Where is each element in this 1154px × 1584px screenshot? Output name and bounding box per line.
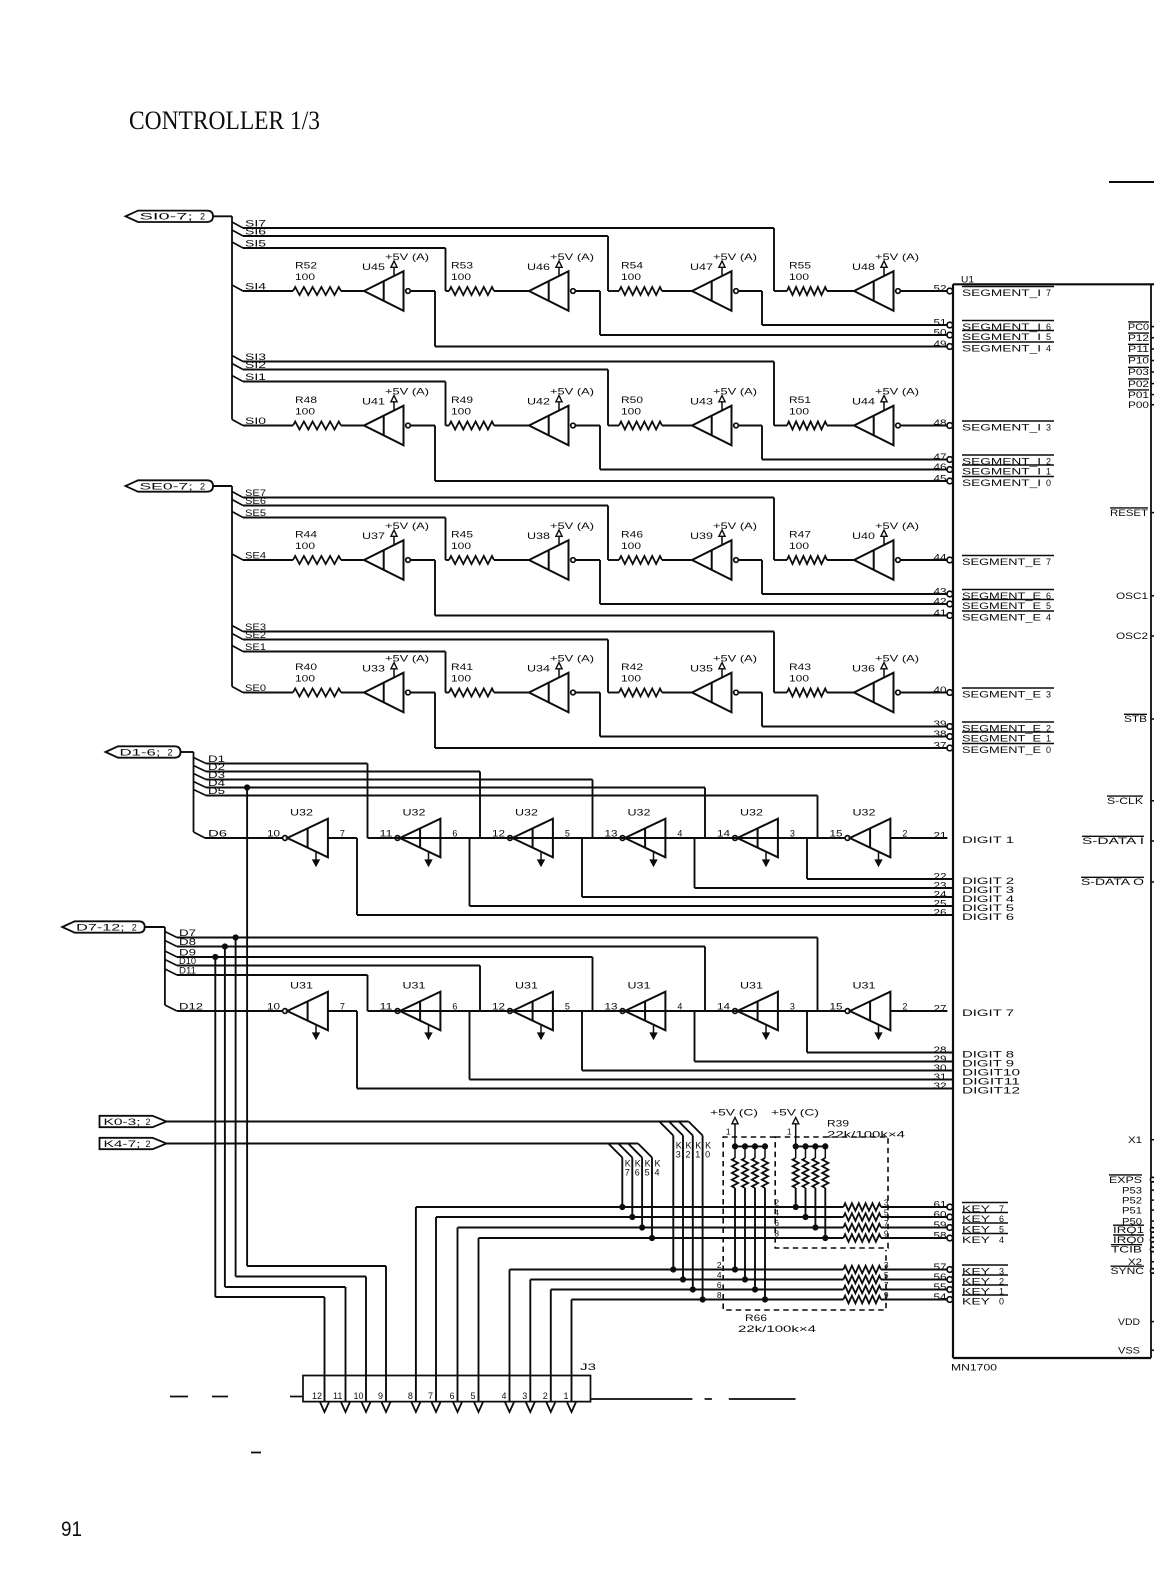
- bus tag D1-6 sheet 2: [106, 746, 181, 757]
- wire U38 output to pin: [575, 560, 947, 604]
- svg-text:3: 3: [1046, 423, 1051, 433]
- svg-text:OSC1: OSC1: [1116, 591, 1148, 601]
- junction on D9: [213, 954, 218, 959]
- svg-text:DIGIT 6: DIGIT 6: [962, 912, 1014, 922]
- svg-text:91: 91: [61, 1518, 82, 1541]
- svg-text:U32: U32: [515, 808, 538, 818]
- svg-text:J3: J3: [580, 1362, 596, 1372]
- svg-text:6: 6: [635, 1168, 640, 1178]
- svg-text:100: 100: [789, 541, 809, 551]
- svg-text:SEGMENT_I: SEGMENT_I: [962, 423, 1041, 433]
- wire R49 to U42: [494, 425, 529, 427]
- svg-text:VSS: VSS: [1118, 1345, 1140, 1355]
- node SI5: [232, 239, 446, 249]
- svg-text:2: 2: [717, 1260, 722, 1270]
- stray dash mark: [251, 1452, 261, 1454]
- svg-text:1: 1: [564, 1391, 569, 1401]
- resistor R40 100: [293, 662, 341, 697]
- power +5V (A) supply of U35: [713, 654, 757, 678]
- node SE2: [232, 630, 608, 640]
- svg-text:EXPS: EXPS: [1109, 1175, 1142, 1185]
- node SE7: [232, 488, 774, 498]
- svg-text:+5V (A): +5V (A): [550, 252, 594, 262]
- svg-text:S-CLK: S-CLK: [1107, 796, 1143, 806]
- svg-text:R52: R52: [295, 261, 317, 271]
- svg-text:R47: R47: [789, 530, 811, 540]
- svg-text:7: 7: [428, 1391, 433, 1401]
- inverter U35: [690, 664, 738, 713]
- svg-text:SYNC: SYNC: [1111, 1266, 1145, 1276]
- node D2: [194, 762, 481, 772]
- svg-text:SE1: SE1: [245, 642, 266, 652]
- wire R55 to U48: [827, 290, 854, 292]
- svg-text:R53: R53: [451, 261, 473, 271]
- wire R47 to U40: [827, 559, 854, 561]
- pin 48 SEGMENT_I 3 of U1: [934, 418, 1055, 433]
- svg-text:39: 39: [934, 719, 947, 729]
- wire D1-6 bus trunk: [194, 752, 206, 838]
- svg-text:+5V (A): +5V (A): [875, 654, 919, 664]
- svg-text:41: 41: [934, 608, 947, 618]
- resistor R66 element 3 pull-up: [752, 1146, 758, 1292]
- wire U33 output to pin: [410, 693, 947, 749]
- svg-text:3: 3: [790, 829, 795, 839]
- pin 44 SEGMENT_E 7 of U1: [934, 553, 1055, 568]
- cable dash-dot line right of J3: [591, 1398, 796, 1400]
- svg-text:7: 7: [340, 829, 345, 839]
- wire K0 vertical to KEY 0 row: [689, 1122, 712, 1303]
- wire U35 output to pin: [738, 693, 947, 727]
- wire U34 output to pin: [575, 693, 947, 737]
- connector J3 pin 9 arrow: [378, 1391, 390, 1412]
- wire D2 drop to U32: [480, 772, 733, 839]
- pin OSC1 of U1 (right side): [1116, 591, 1154, 601]
- svg-text:R39: R39: [827, 1119, 849, 1129]
- svg-text:2: 2: [902, 1002, 907, 1012]
- wire D10 drop to U31: [480, 966, 733, 1012]
- inverter U46: [527, 262, 575, 311]
- resistor R41 100: [449, 662, 494, 697]
- svg-text:37: 37: [934, 741, 947, 751]
- wire U31 output 4 to pin: [665, 1011, 953, 1062]
- pin P11 of U1 (right side): [1128, 344, 1154, 354]
- svg-text:46: 46: [934, 462, 947, 472]
- wire KEY 3 row (pin 57) to J3 pin 4: [510, 1266, 948, 1402]
- wire U31 output 5 to pin: [553, 1011, 953, 1071]
- svg-text:SEGMENT_I: SEGMENT_I: [962, 288, 1041, 298]
- inverter U33: [362, 664, 410, 713]
- pin S-DATA O of U1 (right side): [1081, 877, 1154, 887]
- svg-text:11: 11: [380, 1002, 393, 1012]
- pin 52 SEGMENT_I 7 of U1: [934, 284, 1055, 299]
- svg-text:100: 100: [451, 272, 471, 282]
- pin 37 SEGMENT_E 0 of U1: [934, 741, 1055, 756]
- pin 54 KEY 0 of U1: [934, 1292, 1009, 1307]
- wire D4 to J3 pin 9: [247, 788, 386, 1403]
- pin 28 DIGIT 8 of U1: [934, 1045, 1015, 1060]
- svg-text:12: 12: [492, 829, 505, 839]
- svg-text:+5V (A): +5V (A): [385, 654, 429, 664]
- svg-text:CONTROLLER 1/3: CONTROLLER 1/3: [129, 106, 320, 135]
- wire U40 output to pin: [900, 559, 947, 561]
- svg-text:5: 5: [471, 1391, 476, 1401]
- inverter U41: [362, 397, 410, 446]
- svg-text:SEGMENT_I: SEGMENT_I: [962, 332, 1041, 342]
- svg-text:100: 100: [621, 541, 641, 551]
- svg-text:SE5: SE5: [245, 508, 266, 518]
- wire R42 to U35: [662, 692, 692, 694]
- pin number labels R66 row 0: [717, 1290, 889, 1300]
- svg-text:SI1: SI1: [245, 372, 266, 382]
- inverter U39: [690, 531, 738, 580]
- power +5V (A) supply of U38: [550, 521, 594, 545]
- wire KEY 4 row (pin 58) to J3 pin 5: [479, 1234, 948, 1402]
- svg-text:U43: U43: [690, 397, 713, 407]
- svg-text:2: 2: [902, 829, 907, 839]
- svg-text:44: 44: [934, 553, 947, 563]
- inverter U31 section 11/6: [380, 981, 458, 1040]
- svg-text:SI6: SI6: [245, 227, 266, 237]
- wire D7-12 bus trunk: [165, 927, 177, 1011]
- svg-text:KEY: KEY: [962, 1235, 990, 1245]
- title CONTROLLER 1/3: [129, 106, 320, 135]
- wire U31 output 7 to pin: [328, 1011, 953, 1089]
- svg-text:+5V (A): +5V (A): [550, 521, 594, 531]
- svg-text:42: 42: [934, 597, 947, 607]
- wire U42 output to pin: [575, 426, 947, 470]
- svg-text:3: 3: [1046, 690, 1051, 700]
- svg-text:D10: D10: [179, 956, 196, 966]
- node SE0: [243, 683, 293, 693]
- junction on D4: [245, 785, 250, 790]
- svg-text:51: 51: [934, 318, 947, 328]
- wire SE6 drop to R46: [608, 506, 619, 561]
- node D3: [194, 770, 593, 780]
- svg-text:R55: R55: [789, 261, 811, 271]
- pin 50 SEGMENT_I 5 of U1: [934, 328, 1055, 343]
- wire SE5 drop to R45: [446, 518, 450, 561]
- resistor R48 100: [293, 395, 341, 430]
- pin P00 of U1 (right side): [1128, 400, 1154, 410]
- wire R50 to U43: [662, 425, 692, 427]
- svg-text:SEGMENT_I: SEGMENT_I: [962, 478, 1041, 488]
- svg-text:47: 47: [934, 452, 947, 462]
- wire D9 to J3 pin 12: [215, 957, 324, 1402]
- svg-text:0: 0: [1046, 745, 1051, 755]
- inverter U42: [527, 397, 575, 446]
- wire U32 output 2 to pin: [890, 837, 947, 839]
- inverter U31 section 13/4: [605, 981, 683, 1040]
- svg-text:U35: U35: [690, 664, 713, 674]
- svg-text:R50: R50: [621, 395, 643, 405]
- svg-text:MN1700: MN1700: [951, 1363, 997, 1373]
- svg-text:KEY: KEY: [962, 1297, 990, 1307]
- svg-text:U32: U32: [290, 808, 313, 818]
- svg-text:SI0-7;: SI0-7;: [140, 212, 194, 222]
- svg-text:P53: P53: [1122, 1185, 1142, 1195]
- node D1: [194, 754, 368, 764]
- inverter U44: [852, 397, 900, 446]
- wire SE bus trunk: [232, 486, 243, 693]
- power +5V (A) supply of U47: [713, 252, 757, 276]
- wire K4 vertical to KEY 4 row: [638, 1144, 661, 1241]
- svg-text:27: 27: [934, 1004, 947, 1014]
- svg-text:P02: P02: [1128, 379, 1149, 389]
- inverter U34: [527, 664, 575, 713]
- svg-text:R54: R54: [621, 261, 643, 271]
- svg-text:14: 14: [717, 829, 730, 839]
- wire KEY 5 row (pin 59) to J3 pin 6: [458, 1224, 948, 1402]
- resistor R47 100: [787, 530, 827, 565]
- wire D5 drop to U32: [395, 796, 817, 839]
- power +5V (A) supply of U43: [713, 387, 757, 411]
- pin 57 KEY 3 of U1: [934, 1262, 1009, 1277]
- svg-text:R41: R41: [451, 662, 473, 672]
- connector J3 pin 5 arrow: [471, 1391, 483, 1412]
- svg-text:+5V (A): +5V (A): [713, 521, 757, 531]
- pin 41 SEGMENT_E 4 of U1: [934, 608, 1055, 623]
- power +5V (A) supply of U44: [875, 387, 919, 411]
- node SI4: [232, 282, 293, 292]
- pin IRQ0 of U1 (right side): [1113, 1235, 1154, 1245]
- resistor R46 100: [619, 530, 662, 565]
- inverter U31 section 10/7: [267, 981, 345, 1040]
- svg-text:11: 11: [380, 829, 393, 839]
- svg-text:58: 58: [934, 1231, 947, 1241]
- pin number labels R39 row 6: [774, 1208, 889, 1218]
- resistor R55 100: [787, 261, 827, 296]
- pin 30 DIGIT 10 of U1: [934, 1063, 1021, 1078]
- svg-text:54: 54: [934, 1292, 947, 1302]
- svg-text:7: 7: [340, 1002, 345, 1012]
- IC U1 MN1700 body: [953, 284, 1154, 1358]
- svg-text:7: 7: [1046, 557, 1051, 567]
- svg-text:100: 100: [789, 272, 809, 282]
- inverter U38: [527, 531, 575, 580]
- node D6: [205, 829, 283, 839]
- resistor R49 100: [449, 395, 494, 430]
- svg-text:U44: U44: [852, 397, 875, 407]
- connector J3 pin 11 arrow: [333, 1391, 350, 1412]
- pin 25 DIGIT 5 of U1: [934, 899, 1015, 914]
- resistor R39 element 2 pull-up: [802, 1146, 808, 1219]
- pin 46 SEGMENT_I 1 of U1: [934, 462, 1055, 477]
- wire R66 common bus: [732, 1144, 767, 1149]
- svg-text:8: 8: [717, 1290, 722, 1300]
- svg-text:R66: R66: [745, 1313, 767, 1323]
- inverter U43: [690, 397, 738, 446]
- svg-text:3: 3: [790, 1002, 795, 1012]
- svg-text:100: 100: [295, 272, 315, 282]
- wire K6 vertical to KEY 6 row: [618, 1144, 641, 1220]
- wire SE bus tag to trunk: [213, 485, 232, 487]
- inverter U31 section 14/3: [717, 981, 795, 1040]
- svg-text:P52: P52: [1122, 1195, 1142, 1205]
- pin 32 DIGIT 12 of U1: [934, 1081, 1021, 1096]
- svg-text:SEGMENT_I: SEGMENT_I: [962, 467, 1041, 477]
- wire K0-3 bus line: [167, 1121, 689, 1123]
- svg-text:13: 13: [605, 829, 618, 839]
- wire K1 vertical to KEY 1 row: [679, 1122, 702, 1293]
- pin 26 DIGIT 6 of U1: [934, 908, 1015, 923]
- svg-text:14: 14: [717, 1002, 730, 1012]
- connector J3 pin 10 arrow: [354, 1391, 371, 1412]
- svg-text:8: 8: [408, 1391, 413, 1401]
- pin P50 of U1 (right side): [1122, 1216, 1154, 1226]
- svg-text:+5V (A): +5V (A): [875, 521, 919, 531]
- svg-text:U31: U31: [628, 981, 651, 991]
- wire R40 to U33: [341, 692, 364, 694]
- svg-text:SEGMENT_E: SEGMENT_E: [962, 557, 1041, 567]
- wire SI3 drop to R51: [774, 362, 787, 426]
- wire D1-6 tag to trunk: [181, 751, 194, 753]
- svg-text:1: 1: [1046, 734, 1051, 744]
- wire R46 to U39: [662, 559, 692, 561]
- svg-text:5: 5: [565, 829, 570, 839]
- inverter U32 section 14/3: [717, 808, 795, 867]
- wire K3 vertical to KEY 3 row: [659, 1122, 682, 1273]
- pin STB of U1 (right side): [1124, 714, 1154, 724]
- svg-text:100: 100: [621, 407, 641, 417]
- node SE5: [232, 508, 446, 518]
- resistor R45 100: [449, 530, 494, 565]
- svg-text:STB: STB: [1124, 714, 1147, 724]
- svg-text:7: 7: [1046, 288, 1051, 298]
- svg-text:R49: R49: [451, 395, 473, 405]
- pin X2 of U1 (right side): [1128, 1257, 1154, 1267]
- svg-text:U32: U32: [628, 808, 651, 818]
- svg-text:11: 11: [333, 1391, 342, 1401]
- pin 43 SEGMENT_E 6 of U1: [934, 587, 1055, 602]
- wire R43 to U36: [827, 692, 854, 694]
- svg-text:100: 100: [295, 674, 315, 684]
- svg-text:R44: R44: [295, 530, 317, 540]
- node D8: [165, 937, 705, 947]
- svg-text:40: 40: [934, 685, 947, 695]
- inverter U32 section 15/2: [830, 808, 908, 867]
- resistor R51 100: [787, 395, 827, 430]
- svg-text:100: 100: [789, 407, 809, 417]
- bus tag SE0-7 sheet 2: [126, 480, 214, 491]
- svg-text:+5V (A): +5V (A): [385, 521, 429, 531]
- svg-text:12: 12: [492, 1002, 505, 1012]
- svg-text:13: 13: [605, 1002, 618, 1012]
- pin EXPS of U1 (right side): [1109, 1175, 1154, 1185]
- svg-text:9: 9: [378, 1391, 383, 1401]
- power +5V (A) supply of U40: [875, 521, 919, 545]
- junction on D8: [222, 944, 227, 949]
- inverter U32 section 12/5: [492, 808, 570, 867]
- wire U45 output to pin: [410, 291, 947, 347]
- wire SE7 drop to R47: [774, 498, 787, 561]
- svg-text:U40: U40: [852, 531, 875, 541]
- svg-text:0: 0: [705, 1150, 710, 1160]
- resistor R39 element 1 pull-up: [793, 1146, 799, 1209]
- power +5V (A) supply of U36: [875, 654, 919, 678]
- svg-text:0: 0: [1046, 478, 1051, 488]
- svg-text:38: 38: [934, 729, 947, 739]
- power +5V (A) supply of U39: [713, 521, 757, 545]
- wire K5 vertical to KEY 5 row: [628, 1144, 651, 1231]
- pin number labels R66 row 3: [717, 1260, 889, 1270]
- power +5V (A) supply of U34: [550, 654, 594, 678]
- wire U41 output to pin: [410, 426, 947, 482]
- inverter U32 section 13/4: [605, 808, 683, 867]
- svg-text:0: 0: [999, 1297, 1004, 1307]
- svg-text:21: 21: [934, 831, 947, 841]
- pin PC0 of U1 (right side): [1128, 322, 1154, 332]
- svg-text:4: 4: [502, 1391, 507, 1401]
- resistor R43 100: [787, 662, 827, 697]
- pin 29 DIGIT 9 of U1: [934, 1054, 1015, 1069]
- svg-text:26: 26: [934, 908, 947, 918]
- pin number labels R66 row 1: [717, 1280, 889, 1290]
- bus tag D7-12 sheet 2: [62, 921, 145, 932]
- svg-text:100: 100: [451, 674, 471, 684]
- svg-text:5: 5: [565, 1002, 570, 1012]
- wire U47 output to pin: [738, 291, 947, 325]
- wire D8 to J3 pin 11: [225, 947, 346, 1403]
- svg-text:U31: U31: [403, 981, 426, 991]
- svg-text:SE2: SE2: [245, 630, 266, 640]
- svg-text:DIGIT 7: DIGIT 7: [962, 1008, 1014, 1018]
- pin 40 SEGMENT_E 3 of U1: [934, 685, 1055, 700]
- wire KEY 1 row (pin 55) to J3 pin 2: [551, 1286, 947, 1402]
- wire U46 output to pin: [575, 291, 947, 335]
- svg-text:10: 10: [267, 1002, 280, 1012]
- svg-text:U48: U48: [852, 262, 875, 272]
- svg-text:SI5: SI5: [245, 239, 266, 249]
- svg-text:SEGMENT_E: SEGMENT_E: [962, 745, 1041, 755]
- svg-text:100: 100: [295, 541, 315, 551]
- svg-text:15: 15: [830, 1002, 843, 1012]
- svg-text:U31: U31: [740, 981, 763, 991]
- wire D8 drop to U31: [508, 947, 705, 1012]
- connector J3 pin 7 arrow: [428, 1391, 440, 1412]
- node D11: [165, 966, 368, 976]
- svg-text:U33: U33: [362, 664, 385, 674]
- svg-text:+5V (A): +5V (A): [713, 387, 757, 397]
- svg-text:+5V (A): +5V (A): [385, 387, 429, 397]
- svg-text:D12: D12: [179, 1002, 203, 1012]
- svg-text:52: 52: [934, 284, 947, 294]
- svg-text:+5V (C): +5V (C): [710, 1108, 758, 1118]
- wire U32 output 6 to pin: [440, 838, 953, 906]
- svg-text:U32: U32: [403, 808, 426, 818]
- svg-text:S-DATA I: S-DATA I: [1082, 836, 1144, 846]
- svg-text:P12: P12: [1128, 333, 1149, 343]
- svg-text:4: 4: [999, 1235, 1004, 1245]
- wire D9 drop to U31: [593, 957, 621, 1011]
- pin 21 DIGIT 1 of U1: [934, 831, 1015, 846]
- svg-text:DIGIT 1: DIGIT 1: [962, 835, 1014, 845]
- wire R52 to U45: [341, 290, 364, 292]
- svg-text:VDD: VDD: [1118, 1317, 1141, 1327]
- svg-text:PC0: PC0: [1128, 322, 1149, 332]
- svg-text:D8: D8: [179, 937, 196, 947]
- power +5V (A) supply of U46: [550, 252, 594, 276]
- node D5: [194, 786, 818, 796]
- svg-text:U42: U42: [527, 397, 550, 407]
- svg-text:SE0-7;: SE0-7;: [140, 481, 194, 491]
- svg-text:U32: U32: [853, 808, 876, 818]
- wire D3 drop to U32: [593, 780, 621, 839]
- bus tag K0-3 sheet 2: [100, 1116, 167, 1127]
- connector J3 pin 12 arrow: [312, 1391, 329, 1412]
- node D12: [177, 1002, 283, 1012]
- svg-text:U41: U41: [362, 397, 385, 407]
- wire D7-12 tag to trunk: [145, 926, 165, 928]
